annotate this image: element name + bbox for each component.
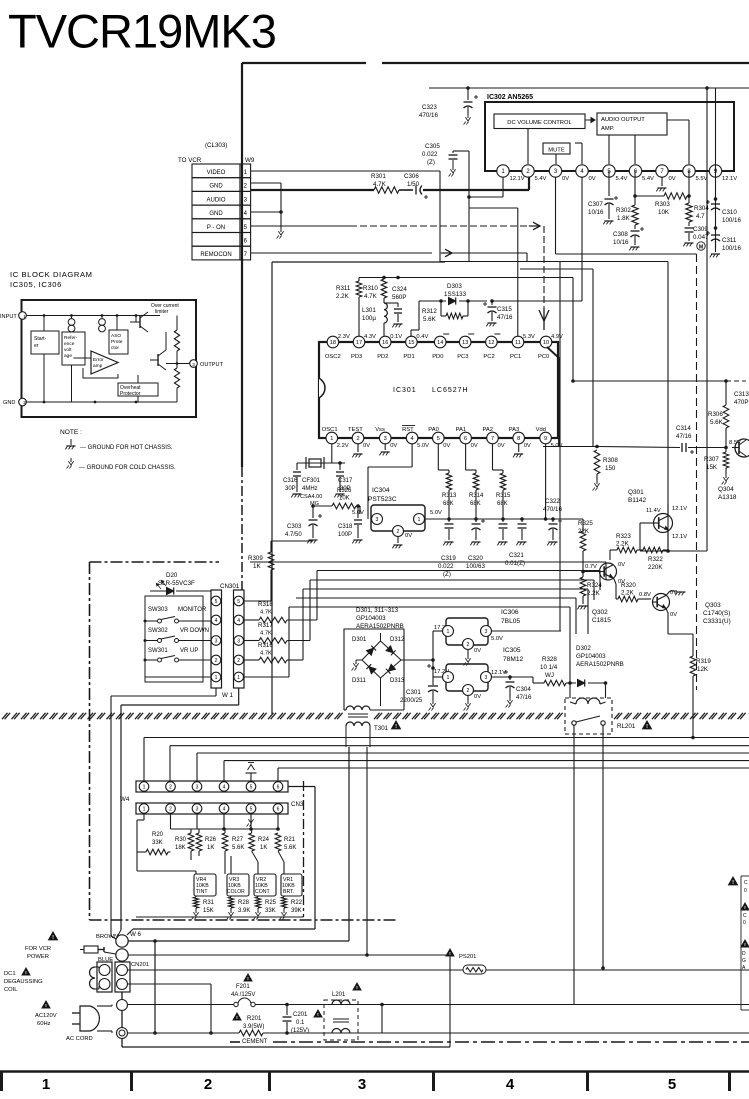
vertical junction wire x155 (154, 941, 156, 1033)
wire 5V rail y277 (359, 277, 573, 279)
svg-text:0V: 0V (498, 443, 505, 449)
svg-text:2: 2 (215, 658, 218, 664)
pin 4 of CN3 (219, 804, 229, 814)
svg-text:0V: 0V (474, 694, 481, 700)
svg-text:3.9K: 3.9K (238, 908, 250, 914)
wire GND pin2 (251, 182, 281, 184)
svg-text:0V: 0V (474, 648, 481, 654)
svg-text:2: 2 (467, 642, 470, 648)
svg-text:470/16: 470/16 (419, 112, 438, 119)
svg-text:10 1/4: 10 1/4 (540, 664, 558, 671)
wire Q301 collector (667, 504, 669, 515)
svg-text:AC120V: AC120V (35, 1013, 57, 1019)
svg-text:Vdd: Vdd (536, 427, 546, 433)
capacitor under x503 (502, 519, 504, 522)
svg-text:NOTE :: NOTE : (60, 429, 82, 436)
ground below C316 (293, 493, 302, 495)
capacitor C307 (608, 171, 610, 196)
pin 4 of IC302 (576, 165, 588, 177)
rail x469 (468, 151, 470, 262)
svg-text:R318: R318 (258, 601, 273, 608)
transistor Q302a (600, 563, 617, 580)
svg-text:4.7K: 4.7K (260, 610, 272, 616)
svg-text:AUDIO: AUDIO (206, 197, 225, 203)
pin 15 PD1 of IC301 (406, 336, 418, 348)
svg-text:AUDIO OUTPUT: AUDIO OUTPUT (601, 117, 645, 123)
wire PA pin down x492.5 (492, 444, 494, 470)
svg-text:0V: 0V (669, 176, 676, 182)
svg-text:GND: GND (3, 400, 15, 406)
hot chassis ground symbol (70, 439, 72, 445)
wire IC305 input (433, 676, 443, 678)
svg-text:0.01(Z): 0.01(Z) (505, 560, 525, 567)
ground (445, 541, 454, 543)
svg-text:SW301: SW301 (148, 648, 168, 654)
wire IC302 pin9 rail (715, 88, 717, 249)
svg-text:A1318: A1318 (718, 494, 737, 501)
svg-text:!: ! (395, 724, 397, 730)
IC block outer box (22, 300, 197, 417)
svg-text:6: 6 (464, 436, 467, 442)
wire Q302a emitter down (614, 578, 617, 584)
svg-text:5.4V: 5.4V (535, 176, 547, 182)
pin 1 OSC1 of IC301 (326, 432, 338, 444)
dash-dot bottom boundary (230, 1041, 240, 1043)
svg-text:Prote: Prote (111, 339, 123, 345)
svg-text:1K: 1K (260, 845, 267, 851)
pin 13 PC3 of IC301 (459, 336, 471, 348)
svg-text:2: 2 (237, 658, 240, 664)
svg-text:12.1V: 12.1V (491, 670, 506, 676)
svg-text:Q301: Q301 (628, 489, 644, 496)
ground below C304 (509, 697, 511, 701)
svg-text:47/16: 47/16 (676, 433, 692, 440)
svg-text:L301: L301 (362, 307, 376, 314)
svg-text:2: 2 (467, 688, 470, 694)
DC VOLUME CONTROL box (494, 114, 585, 129)
svg-text:C301: C301 (406, 689, 421, 696)
bridge box (344, 629, 404, 710)
ground below C309 (685, 242, 694, 244)
pin 5 left of CN301 (211, 596, 221, 606)
ground below R307 (725, 474, 727, 478)
svg-text:IC BLOCK DIAGRAM: IC BLOCK DIAGRAM (10, 270, 93, 279)
transistor Q304 (735, 439, 749, 457)
svg-text:BLUE: BLUE (98, 957, 113, 963)
svg-text:4: 4 (411, 436, 414, 442)
svg-text:C303: C303 (287, 524, 302, 530)
svg-text:1: 1 (42, 1076, 50, 1093)
wire bundle L1 (250, 561, 606, 563)
ground below R308 (596, 480, 598, 484)
svg-text:D301, 311~313: D301, 311~313 (356, 607, 399, 614)
svg-text:5.6K: 5.6K (710, 419, 724, 426)
svg-text:1: 1 (143, 806, 146, 812)
svg-text:R307: R307 (704, 456, 719, 463)
diode D313 (388, 664, 395, 671)
svg-text:4.7K: 4.7K (260, 631, 272, 637)
svg-text:0.047: 0.047 (693, 234, 709, 241)
pin 16 PD2 of IC301 (379, 336, 391, 348)
svg-text:R303: R303 (655, 201, 670, 208)
svg-text:PC3: PC3 (457, 354, 468, 360)
svg-text:Q303: Q303 (705, 602, 721, 609)
svg-text:C307: C307 (588, 201, 603, 208)
svg-text:5: 5 (437, 436, 440, 442)
IC block transistor Q1 (130, 321, 140, 323)
capacitor under x476 (475, 519, 477, 522)
resistor R302 (634, 171, 636, 205)
svg-text:470P: 470P (734, 399, 748, 406)
svg-text:0V: 0V (471, 443, 478, 449)
svg-text:12.1V: 12.1V (722, 176, 737, 182)
potentiometer VR2 CONT (254, 874, 276, 896)
pin 6 of IC302 (629, 165, 641, 177)
svg-text:!: ! (732, 880, 734, 886)
svg-text:DC VOLUME CONTROL: DC VOLUME CONTROL (507, 120, 572, 126)
wire to R328 (532, 677, 534, 683)
svg-text:1: 1 (143, 784, 146, 790)
VR network top wire (170, 814, 172, 829)
svg-text:C201: C201 (293, 1012, 308, 1018)
wire W6 pin1 to T301 (129, 940, 350, 942)
svg-text:(125V): (125V) (291, 1028, 309, 1034)
svg-text:RL201: RL201 (617, 723, 636, 730)
INPUT pin 1 (19, 312, 27, 320)
ground below IC304 pin2 (397, 537, 399, 544)
svg-text:C304: C304 (516, 686, 531, 693)
svg-text:REMOCON: REMOCON (200, 252, 231, 258)
svg-text:POWER: POWER (27, 954, 49, 960)
svg-text:3: 3 (196, 806, 199, 812)
svg-text:3: 3 (358, 1076, 366, 1093)
diode D311 (369, 667, 376, 674)
wire bundle to W4 line1 (144, 737, 749, 739)
dash-dot cable boundary W1 (90, 561, 220, 563)
svg-text:R21: R21 (284, 837, 296, 843)
Reference voltage box (62, 332, 85, 365)
posistor PS201 (446, 949, 454, 956)
svg-text:Error: Error (93, 357, 104, 363)
svg-text:R22: R22 (291, 900, 303, 906)
ground below C303 (309, 539, 318, 541)
svg-text:C1740(S): C1740(S) (703, 610, 730, 617)
wire bundle L2 (317, 570, 600, 572)
svg-text:C323: C323 (422, 104, 437, 111)
svg-text:PA3: PA3 (509, 427, 520, 433)
svg-text:4.7K: 4.7K (364, 293, 378, 300)
svg-text:CSA4.00: CSA4.00 (300, 494, 322, 500)
arrow DC VOL to AUDIO AMP (585, 119, 593, 121)
pin 3 of CN3 (192, 804, 202, 814)
svg-text:IC306: IC306 (501, 609, 519, 616)
ground below C317 (336, 493, 345, 495)
pin 4 of W4 (219, 782, 229, 792)
fuse F201 (244, 974, 252, 981)
ground below C315 (488, 322, 497, 324)
pin 4 right of CN301 (234, 615, 244, 625)
wire CN201 to PS201 line (128, 969, 749, 971)
svg-text:0.4V: 0.4V (416, 334, 428, 340)
svg-text:12.1V: 12.1V (672, 534, 687, 540)
svg-text:G: G (742, 958, 746, 964)
svg-text:16: 16 (382, 340, 388, 346)
potentiometer VR4 TINT (194, 874, 216, 896)
svg-text:C309: C309 (693, 226, 708, 233)
OUTPUT pin 3 (190, 360, 198, 368)
svg-text:60Hz: 60Hz (37, 1021, 51, 1027)
svg-text:(Z): (Z) (427, 159, 435, 166)
transistor Q301 (654, 514, 673, 533)
wire 12V top rail y88 (429, 87, 749, 89)
warning note right edge 1 (729, 877, 738, 885)
svg-text:W9: W9 (245, 157, 255, 164)
svg-text:4.7K: 4.7K (260, 651, 272, 657)
svg-text:R302: R302 (616, 207, 631, 214)
svg-text:1SS133: 1SS133 (444, 291, 467, 298)
svg-text:GND: GND (209, 184, 223, 190)
svg-text:470/16: 470/16 (543, 506, 562, 513)
arrow on REMOCON line (445, 249, 452, 257)
svg-text:R322: R322 (648, 556, 663, 563)
svg-text:5.3V: 5.3V (523, 334, 535, 340)
svg-text:C: C (743, 913, 747, 919)
main board border (242, 62, 366, 64)
svg-text:39K: 39K (291, 908, 302, 914)
pin 5 right of CN301 (234, 596, 244, 606)
pin 3 of IC306 (481, 626, 492, 637)
ground below C311 (711, 253, 720, 255)
svg-text:5: 5 (250, 806, 253, 812)
ground below C307 (605, 220, 614, 222)
svg-text:Q302: Q302 (592, 609, 608, 616)
wire bundle L4 (303, 588, 588, 590)
svg-text:R301: R301 (371, 173, 386, 180)
svg-text:5.0V: 5.0V (491, 636, 503, 642)
svg-text:OUTPUT: OUTPUT (200, 362, 224, 368)
pin 3 of IC302 (549, 165, 561, 177)
svg-text:AC CORD: AC CORD (66, 1036, 93, 1042)
svg-text:6: 6 (277, 784, 280, 790)
pin 5 of CN3 (246, 804, 256, 814)
svg-text:12.1V: 12.1V (510, 176, 525, 182)
rail x560 (559, 262, 561, 631)
svg-text:12.1V: 12.1V (672, 506, 687, 512)
svg-text:0.1V: 0.1V (390, 334, 402, 340)
wire y269 (520, 268, 593, 270)
svg-text:AMP.: AMP. (601, 126, 615, 132)
inner box left edge rail (271, 262, 273, 714)
svg-text:5: 5 (668, 1076, 676, 1093)
svg-text:3: 3 (376, 517, 379, 523)
pin 1 of IC305 (443, 672, 454, 683)
pin 5 of W4 (246, 782, 256, 792)
svg-text:Q304: Q304 (718, 486, 734, 493)
svg-text:4.7/50: 4.7/50 (285, 532, 302, 538)
svg-text:C321: C321 (509, 552, 524, 559)
svg-text:limiter: limiter (155, 309, 169, 315)
svg-text:0: 0 (744, 888, 747, 894)
svg-text:R27: R27 (232, 837, 244, 843)
wire CN201-2 right (128, 983, 212, 985)
svg-text:12: 12 (488, 340, 494, 346)
pin 2 of W4 (166, 782, 176, 792)
svg-text:P - ON: P - ON (207, 225, 225, 231)
svg-text:R323: R323 (616, 533, 631, 540)
connector W6 pins (116, 935, 128, 947)
wire IC302 pin1 to rail (502, 177, 504, 197)
diode D301 (366, 648, 373, 655)
svg-text:CEMENT: CEMENT (242, 1039, 268, 1045)
warning note right edge 3 (741, 940, 749, 947)
svg-text:ASO: ASO (111, 333, 121, 339)
svg-text:3: 3 (196, 784, 199, 790)
wire PA pin down x438.3 (437, 444, 439, 470)
svg-text:FOR VCR: FOR VCR (25, 946, 51, 952)
svg-text:1/50: 1/50 (407, 181, 420, 188)
svg-text:47/16: 47/16 (516, 694, 532, 701)
svg-text:0V: 0V (405, 533, 412, 539)
svg-text:IC305: IC305 (503, 647, 521, 654)
wire W1 down-left A (215, 688, 217, 696)
ground below C305 (452, 166, 454, 170)
pin 3 right of CN301 (234, 636, 244, 646)
ground below C322 (549, 541, 558, 543)
svg-text:3: 3 (485, 629, 488, 635)
svg-text:5.6K: 5.6K (423, 316, 437, 323)
current source symbols (68, 319, 75, 326)
svg-text:15K: 15K (706, 464, 718, 471)
GND pin 2 (19, 398, 27, 406)
warning note right edge 2 (741, 903, 749, 910)
wire bundle L6 (289, 606, 570, 608)
svg-text:1: 1 (237, 675, 240, 681)
AUDIO OUTPUT AMP box (597, 113, 667, 135)
relay contacts (572, 721, 576, 725)
W4 pin drop wires (143, 738, 145, 782)
svg-text:0V: 0V (363, 443, 370, 449)
svg-text:F201: F201 (236, 984, 250, 990)
wire CN301 pin1 to bundle (244, 676, 290, 678)
pin 6 of CN3 (273, 804, 283, 814)
ground under TEST pin (357, 444, 359, 452)
warning FOR VCR POWER (49, 932, 58, 940)
svg-text:0.8V: 0.8V (639, 592, 651, 598)
svg-text:C324: C324 (392, 286, 407, 293)
svg-text:2: 2 (23, 400, 26, 405)
svg-text:R30: R30 (175, 837, 187, 843)
crystal CF301 (309, 459, 321, 467)
capacitor under x449 (448, 519, 450, 522)
ground right of Q302b (666, 591, 670, 596)
svg-text:--- GROUND FOR COLD CHASSIS.: --- GROUND FOR COLD CHASSIS. (79, 465, 176, 471)
svg-text:10K: 10K (339, 496, 350, 502)
potentiometer VR3 COLOR (227, 874, 249, 896)
svg-text:TO VCR: TO VCR (178, 157, 202, 164)
pin 1 of IC302 (497, 165, 509, 177)
pin 1 right of CN301 (234, 672, 244, 682)
svg-text:!: ! (646, 724, 648, 730)
ground below R25 (257, 909, 259, 913)
svg-text:100P: 100P (338, 532, 352, 538)
svg-text:BROWN: BROWN (96, 934, 118, 940)
svg-text:R317: R317 (258, 622, 273, 629)
diode D312 (386, 646, 393, 653)
svg-text:D303: D303 (447, 283, 462, 290)
svg-text:BRT.: BRT. (283, 889, 294, 895)
rail IC302 pin4 down (581, 177, 583, 301)
rail x440 (439, 171, 441, 262)
label lines around C319 C320 (438, 540, 455, 548)
pin 10 PC0 of IC301 (540, 336, 552, 348)
svg-text:PD0: PD0 (432, 354, 443, 360)
svg-text:SW303: SW303 (148, 607, 168, 613)
svg-text:10/16: 10/16 (613, 239, 629, 246)
svg-text:18K: 18K (175, 845, 186, 851)
wire Q301 emitter (667, 532, 669, 552)
svg-text:100µ: 100µ (362, 315, 376, 322)
svg-text:13: 13 (462, 340, 468, 346)
svg-text:1K: 1K (253, 563, 261, 570)
svg-text:C: C (744, 880, 748, 886)
svg-text:D302: D302 (576, 645, 591, 652)
svg-text:15: 15 (408, 340, 414, 346)
wire brown upper y929 (133, 928, 315, 930)
svg-text:IC302 AN5265: IC302 AN5265 (487, 94, 533, 101)
svg-text:5.4V: 5.4V (616, 176, 628, 182)
pin 2 left of CN301 (211, 655, 221, 665)
switch common wire (144, 621, 146, 660)
svg-text:--- GROUND FOR HOT CHASSIS.: --- GROUND FOR HOT CHASSIS. (80, 445, 173, 451)
wire R309 top (271, 540, 313, 542)
wire y381 rail (573, 380, 726, 382)
svg-text:(Z): (Z) (443, 571, 451, 578)
ground below C324 (394, 323, 403, 325)
svg-text:68K: 68K (443, 501, 454, 507)
degauss coil symbol (90, 967, 96, 989)
AC plug wires (97, 1005, 112, 1007)
ground below C308 (631, 246, 640, 248)
pin 8 PA3 of IC301 (513, 432, 525, 444)
IC block transistor Q2 (150, 359, 158, 361)
svg-text:0V: 0V (562, 176, 569, 182)
svg-text:IC301: IC301 (393, 387, 417, 394)
svg-text:0.022: 0.022 (422, 151, 438, 158)
svg-text:10K: 10K (658, 209, 670, 216)
svg-text:R28: R28 (238, 900, 250, 906)
svg-text:C319: C319 (441, 555, 456, 562)
svg-text:R311: R311 (336, 285, 351, 292)
svg-text:W 6: W 6 (130, 931, 142, 938)
IC IC301 LC6527H (319, 342, 558, 438)
svg-text:COLOR: COLOR (227, 889, 245, 895)
svg-text:0.022: 0.022 (438, 563, 454, 570)
svg-text:AERA1502PNRB: AERA1502PNRB (576, 661, 624, 668)
svg-text:PD2: PD2 (377, 354, 388, 360)
svg-text:2.2V: 2.2V (337, 443, 349, 449)
svg-text:5.6K: 5.6K (232, 845, 244, 851)
svg-text:0: 0 (743, 920, 746, 926)
svg-text:C313: C313 (734, 391, 749, 398)
wire W1 down-left B (238, 688, 240, 705)
ground below R28 (230, 909, 232, 913)
pin 3 of IC304 (372, 514, 383, 525)
wire bundle L5 (296, 597, 576, 599)
pin 1 left of CN301 (211, 672, 221, 682)
svg-text:C306: C306 (404, 173, 419, 180)
wire y551 (640, 550, 707, 552)
wire R20 loop (136, 820, 138, 871)
